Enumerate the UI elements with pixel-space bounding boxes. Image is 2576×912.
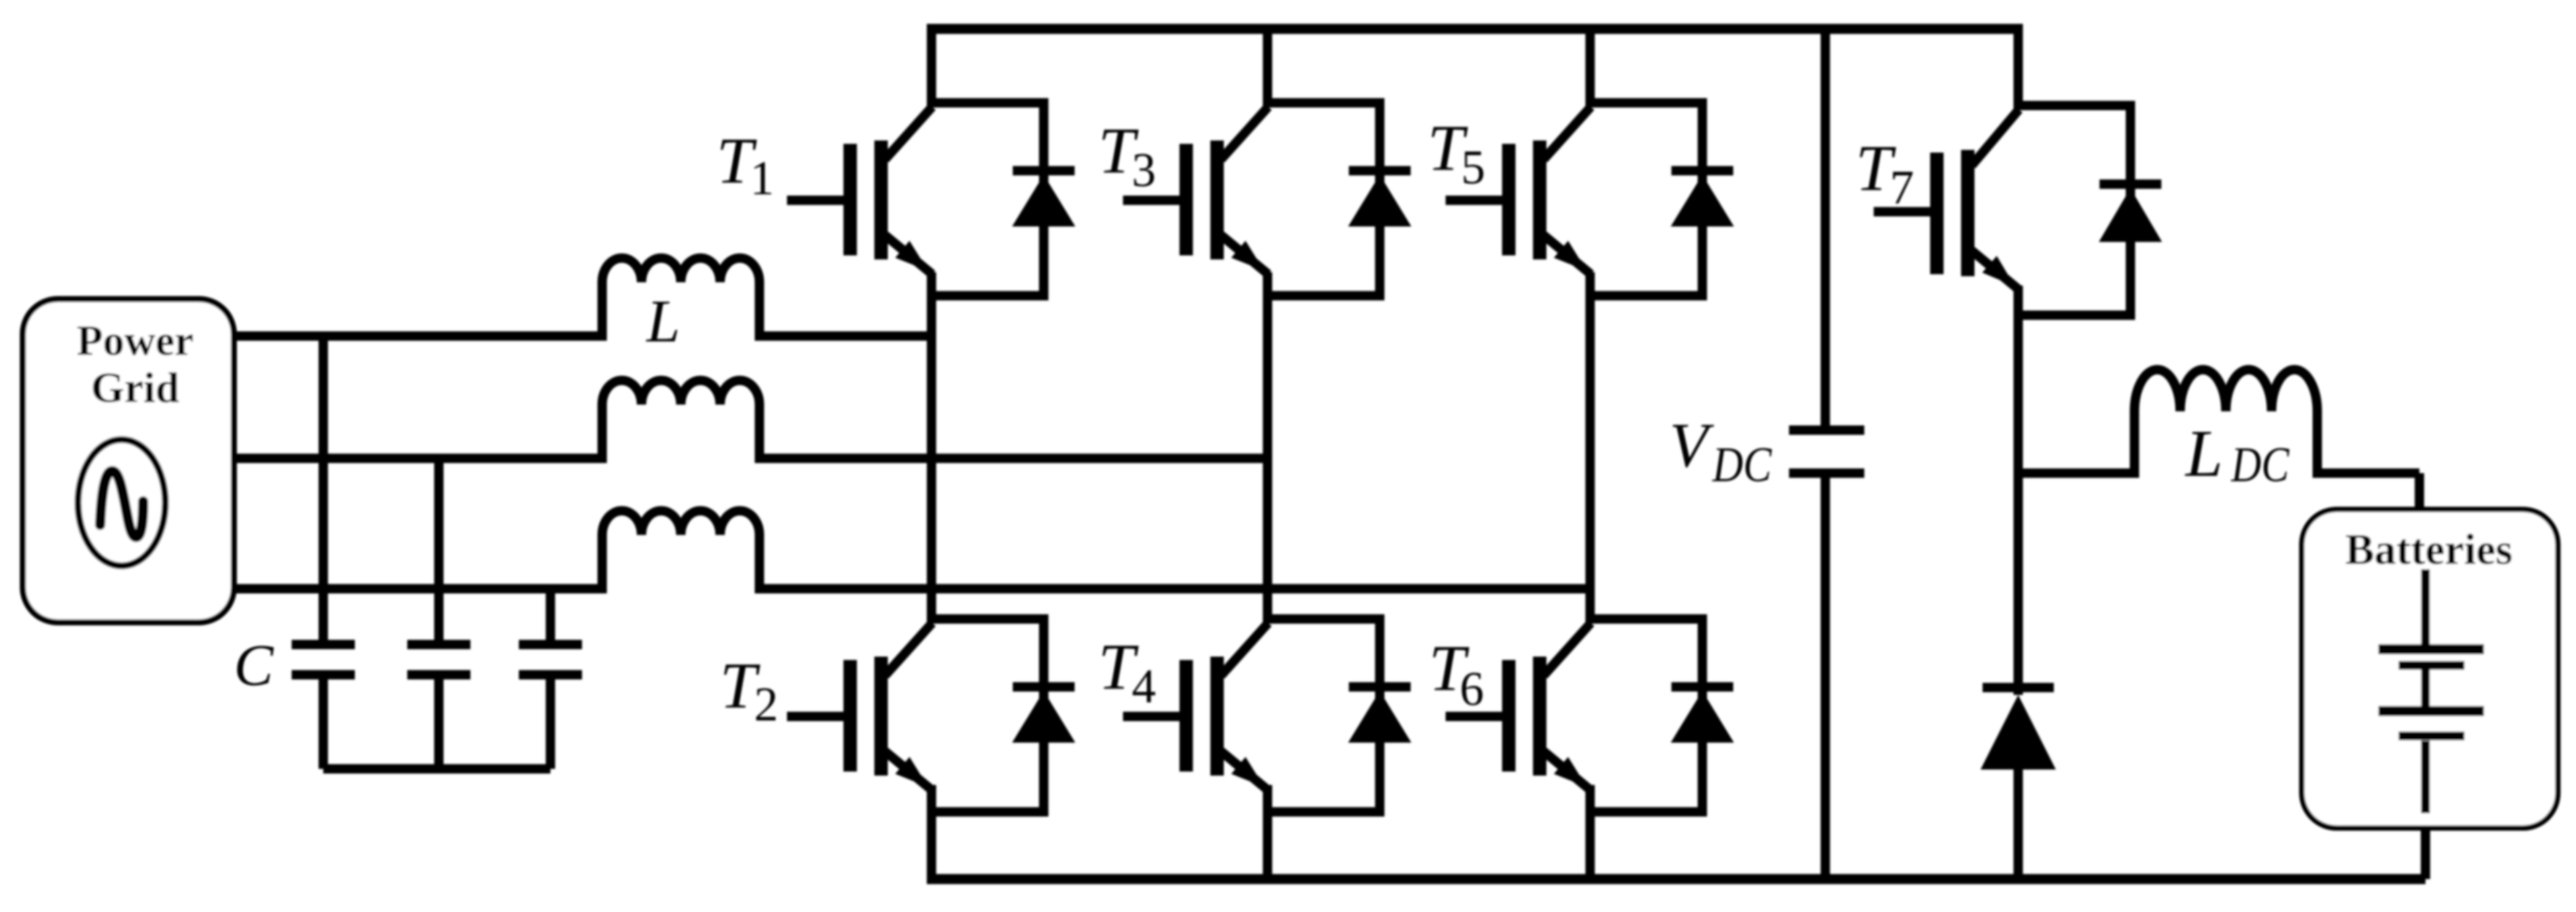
svg-text:Batteries: Batteries [2345, 526, 2512, 574]
svg-text:7: 7 [1890, 161, 1914, 214]
svg-text:2: 2 [754, 677, 778, 731]
svg-text:3: 3 [1132, 143, 1156, 197]
svg-text:Grid: Grid [91, 364, 179, 411]
svg-text:4: 4 [1132, 659, 1156, 713]
svg-text:6: 6 [1460, 662, 1484, 716]
svg-text:L: L [2184, 416, 2223, 491]
svg-text:Power: Power [77, 317, 194, 364]
svg-text:DC: DC [1712, 438, 1772, 493]
svg-text:DC: DC [2231, 438, 2290, 493]
svg-text:5: 5 [1461, 140, 1485, 194]
svg-text:1: 1 [750, 151, 774, 205]
svg-text:L: L [645, 288, 680, 355]
svg-text:C: C [234, 633, 274, 698]
svg-text:V: V [1669, 411, 1714, 481]
